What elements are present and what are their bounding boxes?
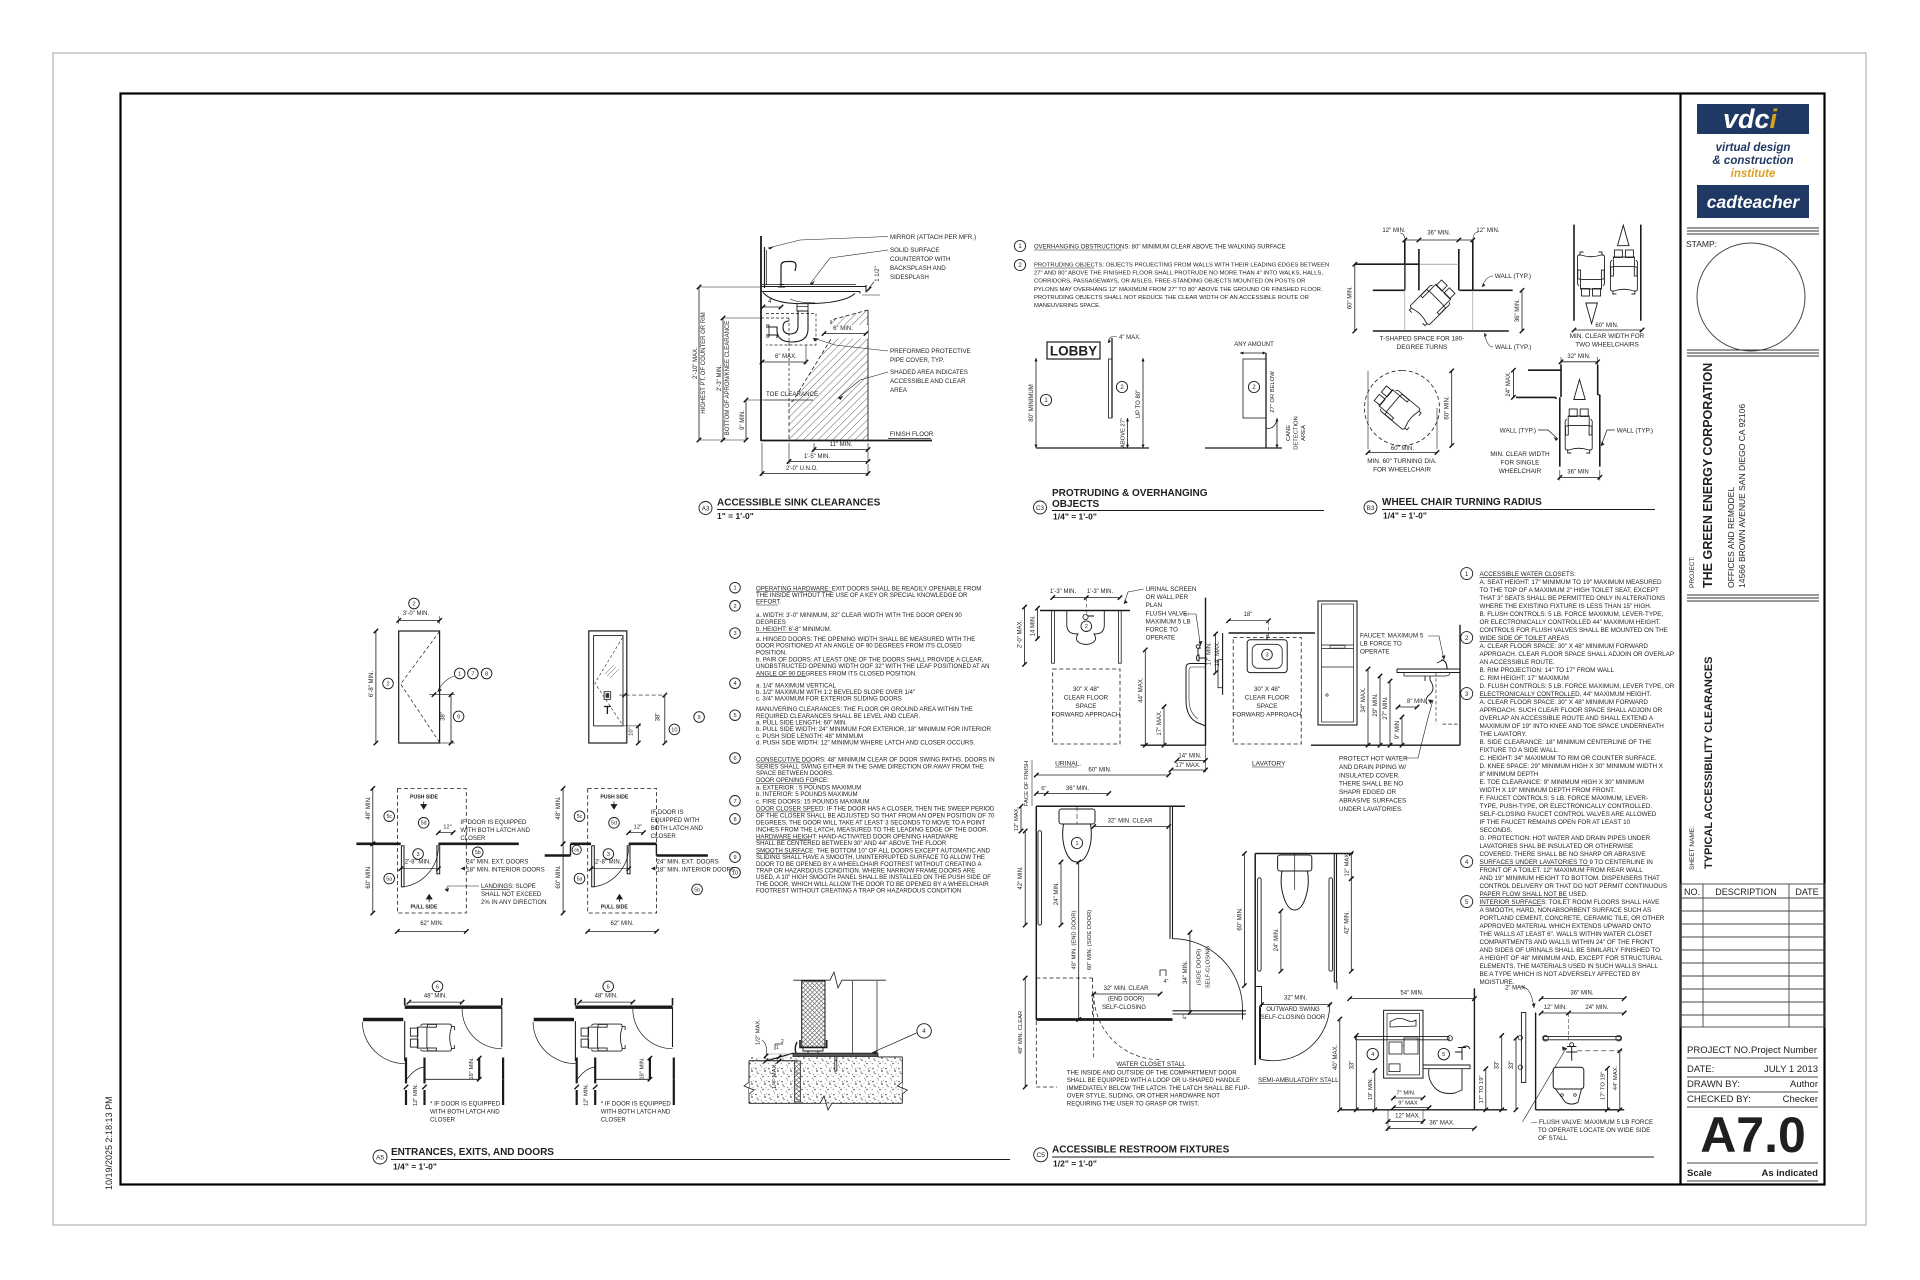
svg-text:INSULATED COVER.: INSULATED COVER.: [1339, 772, 1400, 779]
down arrow: [1586, 303, 1598, 324]
svg-text:OPERATE: OPERATE: [1146, 635, 1176, 642]
svg-text:33": 33": [1349, 1061, 1355, 1070]
maneuvering space dashed: [397, 788, 466, 913]
toilet: [1278, 855, 1312, 871]
svg-text:2: 2: [1085, 624, 1088, 630]
svg-text:SIDESPLASH: SIDESPLASH: [890, 274, 929, 281]
left lower wall: [1373, 289, 1405, 291]
svg-text:AND 19" MINIMUM HEIGHT TO BOTT: AND 19" MINIMUM HEIGHT TO BOTTOM. DISPEN…: [1480, 875, 1660, 882]
svg-text:5: 5: [733, 713, 736, 719]
svg-text:SHADED AREA INDICATES: SHADED AREA INDICATES: [890, 369, 968, 376]
24 max dim: [1512, 370, 1514, 397]
60 min dim left: [1354, 264, 1356, 331]
stamp circle: [1697, 243, 1805, 351]
svg-text:TO OPERATE LOCATE ON WIDE SIDE: TO OPERATE LOCATE ON WIDE SIDE: [1538, 1127, 1650, 1134]
svg-text:5b: 5b: [694, 887, 700, 893]
svg-text:THE INSIDE AND OUTSIDE OF THE: THE INSIDE AND OUTSIDE OF THE COMPARTMEN…: [1067, 1070, 1237, 1077]
dim 2-8 min: [603, 849, 614, 860]
svg-text:24" MIN.: 24" MIN.: [1585, 1005, 1608, 1011]
svg-text:URINAL.: URINAL.: [1055, 761, 1081, 768]
svg-text:ABOVE 27": ABOVE 27": [1121, 418, 1127, 448]
svg-text:B. FLUSH CONTROLS: 5 LB. FORCE: B. FLUSH CONTROLS: 5 LB. FORCE MAXIMUM, …: [1480, 611, 1664, 618]
small arc: [578, 1067, 596, 1079]
svg-text:PUSH SIDE: PUSH SIDE: [410, 794, 439, 800]
grab bar: [1543, 1037, 1621, 1040]
svg-text:14 MIN.: 14 MIN.: [1031, 615, 1037, 636]
svg-text:THE INSIDE WITHOUT THE USE OF: THE INSIDE WITHOUT THE USE OF A KEY OR S…: [756, 592, 968, 599]
mirror: [764, 247, 766, 288]
knee clearance dashed: [761, 317, 789, 319]
toilet side elevation: [1333, 988, 1507, 1131]
svg-text:7" MIN.: 7" MIN.: [1396, 1090, 1416, 1096]
svg-text:12" MIN.: 12" MIN.: [1476, 228, 1499, 234]
svg-text:PULL SIDE: PULL SIDE: [411, 904, 439, 910]
svg-text:WIDTH X 19" MINIMUM DEPTH FROM: WIDTH X 19" MINIMUM DEPTH FROM FRONT.: [1480, 787, 1616, 794]
flush valve note: [1523, 1048, 1567, 1122]
svg-text:1: 1: [733, 586, 736, 592]
svg-text:SPACE: SPACE: [1257, 703, 1278, 710]
note circle 8: [730, 814, 741, 825]
svg-text:(SIDE DOOR): (SIDE DOOR): [1197, 949, 1203, 985]
svg-text:STAMP:: STAMP:: [1686, 239, 1717, 249]
toilet profile: [1423, 1065, 1470, 1069]
svg-text:REQUIRING THE USER TO GRASP OR: REQUIRING THE USER TO GRASP OR TWIST.: [1067, 1100, 1199, 1107]
60 min vertical dim: [1451, 371, 1453, 446]
svg-text:SOLID SURFACE: SOLID SURFACE: [890, 247, 940, 254]
svg-text:FRONT OF A TOILET. 12" MAXIMUM: FRONT OF A TOILET. 12" MAXIMUM FROM REAR…: [1480, 867, 1644, 874]
svg-text:DATE:: DATE:: [1687, 1064, 1714, 1075]
svg-text:ACCESSIBLE WATER CLOSETS:: ACCESSIBLE WATER CLOSETS:: [1480, 571, 1576, 578]
lavatory plan: [1207, 612, 1316, 768]
svg-text:OUTWARD SWING: OUTWARD SWING: [1266, 1006, 1320, 1013]
svg-text:7: 7: [733, 799, 736, 805]
svg-text:As indicated: As indicated: [1762, 1168, 1819, 1179]
svg-text:80" MINIMUM: 80" MINIMUM: [1029, 384, 1035, 421]
svg-text:TYPICAL ACCESSIBILITY CLEARANC: TYPICAL ACCESSIBILITY CLEARANCES: [1703, 657, 1715, 870]
svg-text:FORWARD APPROACH: FORWARD APPROACH: [1052, 712, 1121, 719]
floor line left: [749, 1060, 795, 1062]
svg-text:48" MIN. (END DOOR): 48" MIN. (END DOOR): [1072, 910, 1078, 969]
svg-text:C. RIM HEIGHT: 17" MAXIMUM: C. RIM HEIGHT: 17" MAXIMUM: [1480, 675, 1569, 682]
title A3: [699, 502, 712, 515]
svg-text:— FLUSH VALVE: MAXIMUM 5 LB FO: — FLUSH VALVE: MAXIMUM 5 LB FORCE: [1531, 1119, 1653, 1126]
thin verticals: [1404, 264, 1406, 331]
svg-text:B3: B3: [1367, 505, 1375, 512]
door arc: [1173, 939, 1243, 1009]
svg-text:IF DOOR IS: IF DOOR IS: [651, 809, 684, 816]
semi-ambulatory stall plan: [1237, 851, 1353, 1084]
dim 38 right: [664, 695, 666, 743]
svg-text:COUNTERTOP WITH: COUNTERTOP WITH: [890, 256, 951, 263]
wall: [1229, 632, 1316, 634]
svg-text:27" MIN.: 27" MIN.: [1383, 696, 1389, 719]
left dims: [1020, 806, 1022, 831]
svg-text:FOR SINGLE: FOR SINGLE: [1501, 460, 1540, 467]
small dims: [1374, 1071, 1376, 1110]
dim 9 min: [745, 400, 747, 440]
note 1: [1014, 240, 1025, 251]
svg-text:DOOR OPENING FORCE:: DOOR OPENING FORCE:: [756, 777, 829, 784]
svg-text:38": 38": [656, 713, 662, 722]
svg-text:INTERIOR SURFACES: TOILET ROOM: INTERIOR SURFACES: TOILET ROOM FLOORS SH…: [1480, 899, 1660, 906]
svg-text:60" MIN.: 60" MIN.: [1348, 286, 1354, 309]
C5 numbered notes column: [1461, 568, 1675, 986]
svg-text:PROTRUDING OBJECTS SHALL NOT R: PROTRUDING OBJECTS SHALL NOT REDUCE THE …: [1034, 295, 1309, 301]
door elevation 1: [399, 631, 440, 743]
lower-left wall: [363, 1018, 403, 1021]
svg-text:8b: 8b: [574, 847, 579, 852]
svg-text:CLEAR FLOOR: CLEAR FLOOR: [1245, 695, 1290, 702]
svg-text:4": 4": [768, 299, 773, 305]
svg-text:5b: 5b: [475, 850, 481, 856]
svg-text:LAVATORIES SHAL BE INSULATED O: LAVATORIES SHAL BE INSULATED OR OTHERWIS…: [1480, 843, 1634, 850]
svg-text:URINAL SCREEN: URINAL SCREEN: [1146, 586, 1197, 593]
svg-text:COMPARTMENTS AND WALLS WITHIN: COMPARTMENTS AND WALLS WITHIN 24" OF THE…: [1480, 939, 1654, 946]
svg-text:3'-0" MIN.: 3'-0" MIN.: [403, 611, 430, 617]
urinal side elevation: [1124, 586, 1208, 772]
svg-text:5a: 5a: [386, 876, 392, 882]
svg-text:30" X 48": 30" X 48": [1254, 686, 1280, 693]
svg-text:b. HEIGHT: 6'-8" MINIMUM.: b. HEIGHT: 6'-8" MINIMUM.: [756, 626, 832, 633]
svg-text:5d: 5d: [421, 821, 427, 827]
up arrow: [1574, 379, 1585, 399]
svg-text:12" MIN.: 12" MIN.: [584, 1083, 590, 1106]
turning circle diagram: [1365, 371, 1440, 446]
svg-text:Project Number: Project Number: [1751, 1045, 1817, 1056]
svg-text:SELF-CLOSING DOOR: SELF-CLOSING DOOR: [1261, 1014, 1326, 1021]
svg-text:32" MIN. CLEAR: 32" MIN. CLEAR: [1104, 986, 1149, 992]
svg-text:OBJECTS: OBJECTS: [1052, 499, 1100, 510]
svg-text:1: 1: [776, 1045, 779, 1051]
side wall + dispenser: [1222, 633, 1224, 695]
svg-text:2'-3" MIN.: 2'-3" MIN.: [717, 365, 723, 392]
svg-text:CLOSER: CLOSER: [601, 1117, 627, 1124]
svg-text:MIN. CLEAR WIDTH: MIN. CLEAR WIDTH: [1490, 451, 1550, 458]
svg-text:2'-10" MAX.: 2'-10" MAX.: [693, 347, 699, 379]
svg-text:CLOSER: CLOSER: [651, 833, 677, 840]
svg-text:6: 6: [607, 984, 610, 990]
door swing plan left: [356, 786, 544, 933]
svg-text:THE GREEN ENERGY CORPORATION: THE GREEN ENERGY CORPORATION: [1701, 363, 1715, 588]
svg-text:3: 3: [417, 852, 420, 858]
svg-text:PULL SIDE: PULL SIDE: [601, 904, 629, 910]
vestibule plan left: [362, 981, 503, 1124]
svg-text:3: 3: [733, 631, 736, 637]
svg-text:ANGLE OF 90 DEGREES FROM ITS C: ANGLE OF 90 DEGREES FROM ITS CLOSED POSI…: [756, 670, 917, 677]
side door dims: [1189, 933, 1191, 1013]
svg-text:12" MIN.: 12" MIN.: [413, 1083, 419, 1106]
svg-text:PLAN: PLAN: [1146, 602, 1163, 609]
svg-text:BACKSPLASH AND: BACKSPLASH AND: [890, 265, 946, 272]
dashed door swing (end door): [1094, 994, 1160, 1060]
svg-text:12" MAX.: 12" MAX.: [1014, 806, 1020, 831]
svg-text:9" MAX: 9" MAX: [1398, 1101, 1418, 1107]
dim 3-0 min: [409, 598, 420, 609]
svg-text:10": 10": [629, 727, 635, 736]
svg-text:33": 33": [1495, 1061, 1501, 1070]
divider lines: [1687, 350, 1819, 356]
svg-text:THAT 3" SEATS SHALL BE PERMITT: THAT 3" SEATS SHALL BE PERMITTED ONLY IN…: [1480, 595, 1666, 602]
svg-text:UP TO 80": UP TO 80": [1136, 390, 1142, 418]
svg-text:DRAWN BY:: DRAWN BY:: [1687, 1079, 1740, 1090]
svg-text:B. RIM PROJECTION: 14" TO 17": B. RIM PROJECTION: 14" TO 17" FROM WALL: [1480, 667, 1615, 674]
svg-text:5c: 5c: [386, 814, 392, 820]
svg-text:APPROACH. CLEAR FLOOR SPACE SH: APPROACH. CLEAR FLOOR SPACE SHALL ADJOIN…: [1480, 651, 1675, 658]
svg-text:44" MAX.: 44" MAX.: [1138, 677, 1144, 702]
svg-text:4: 4: [922, 1028, 926, 1035]
svg-text:ACCESSIBLE RESTROOM FIXTURES: ACCESSIBLE RESTROOM FIXTURES: [1052, 1145, 1230, 1156]
svg-text:FLUSH VALVE:: FLUSH VALVE:: [1146, 611, 1190, 618]
svg-text:24" MIN.: 24" MIN.: [1274, 928, 1280, 951]
svg-text:17" TO 19": 17" TO 19": [1600, 1072, 1606, 1100]
project data: [1687, 1045, 1818, 1107]
svg-text:14" MIN.: 14" MIN.: [1178, 753, 1201, 759]
title B3: [1364, 501, 1377, 514]
note circle 10: [730, 867, 741, 878]
svg-text:T-SHAPED SPACE FOR 180-: T-SHAPED SPACE FOR 180-: [1380, 336, 1465, 343]
svg-text:MIRROR (ATTACH PER MFR.): MIRROR (ATTACH PER MFR.): [890, 234, 976, 241]
svg-text:SURFACES UNDER LAVATORIES TO 9: SURFACES UNDER LAVATORIES TO 9 TO CENTER…: [1480, 859, 1654, 866]
svg-text:TO THE TOP OF A MAXIMUM 2" HIG: TO THE TOP OF A MAXIMUM 2" HIGH TOILET S…: [1480, 587, 1659, 594]
clear floor dashed: [1053, 669, 1120, 744]
svg-text:SELF-CLOSING: SELF-CLOSING: [1206, 945, 1212, 988]
svg-text:OF THE CLOSER SHALL BE ADJUSTE: OF THE CLOSER SHALL BE ADJUSTED SO THAT …: [756, 812, 995, 819]
svg-text:MANEUVERING SPACE.: MANEUVERING SPACE.: [1034, 303, 1101, 309]
grab bars: [1258, 878, 1262, 971]
svg-text:SELF-CLOSING: SELF-CLOSING: [1102, 1005, 1146, 1011]
svg-text:SEMI-AMBULATORY STALL: SEMI-AMBULATORY STALL: [1258, 1077, 1339, 1084]
svg-text:A. CLEAR FLOOR SPACE: 30" X 48: A. CLEAR FLOOR SPACE: 30" X 48" MINIMUM …: [1480, 643, 1649, 650]
svg-text:6'-8" MIN.: 6'-8" MIN.: [369, 671, 375, 698]
dim 38: [450, 695, 452, 743]
svg-text:IMMEDIATELY BELOW THE LATCH. T: IMMEDIATELY BELOW THE LATCH. THE LATCH S…: [1067, 1085, 1250, 1092]
svg-text:17" TO 19": 17" TO 19": [1479, 1075, 1485, 1103]
svg-text:AREA: AREA: [1301, 425, 1307, 441]
two wheelchair diagram: [1573, 225, 1575, 321]
extension line: [767, 1053, 790, 1055]
svg-text:SHAPR EDGED OR: SHAPR EDGED OR: [1339, 789, 1396, 796]
note circle 6: [730, 753, 741, 764]
svg-text:EFFORT.: EFFORT.: [756, 599, 782, 606]
water closet stall plan: [1014, 760, 1250, 1107]
dispenser and lavatory elevation: [1311, 601, 1460, 813]
wall left: [1535, 1013, 1537, 1110]
lower corridor jambs: [576, 1058, 578, 1084]
svg-text:12" MAX.: 12" MAX.: [1395, 1114, 1420, 1120]
wheelchair: [1565, 409, 1592, 453]
sheet border frame: [121, 94, 1825, 1185]
door 1 leaf+arc: [404, 1021, 406, 1061]
left wall: [1035, 806, 1037, 1020]
door leaf: [592, 846, 595, 887]
svg-text:Checker: Checker: [1783, 1094, 1818, 1105]
break line top: [793, 972, 886, 988]
svg-text:24" MAX.: 24" MAX.: [1506, 371, 1512, 396]
svg-text:42" MIN.: 42" MIN.: [1018, 866, 1024, 889]
dims: [1144, 650, 1146, 745]
svg-text:OPERATE: OPERATE: [1360, 649, 1390, 656]
svg-text:AND DRAIN PIPING W/: AND DRAIN PIPING W/: [1339, 764, 1406, 771]
hardware line dashed: [619, 694, 665, 696]
note circle 7: [730, 796, 741, 807]
svg-text:SPACE BETWEEN DOORS.: SPACE BETWEEN DOORS.: [756, 770, 834, 777]
svg-text:2'-8" MIN.: 2'-8" MIN.: [405, 860, 432, 866]
svg-text:33": 33": [1509, 1061, 1515, 1070]
svg-text:CONTROL DELIVERY OR THAT DO NO: CONTROL DELIVERY OR THAT DO NOT PERMIT C…: [1480, 883, 1668, 890]
svg-text:D. KNEE SPACE: 29" MINIMUM HIG: D. KNEE SPACE: 29" MINIMUM HIGH X 30" MI…: [1480, 763, 1664, 770]
svg-text:14566 BROWN AVENUE SAN DIEGO C: 14566 BROWN AVENUE SAN DIEGO CA 92106: [1737, 404, 1747, 588]
svg-text:36" MAX.: 36" MAX.: [1429, 1121, 1454, 1127]
paper towel dispenser: [1318, 601, 1357, 725]
left dims: [1024, 607, 1026, 664]
svg-text:54" MIN.: 54" MIN.: [1400, 991, 1423, 997]
svg-text:OVER STYLE, SLIDING, OR OTHER: OVER STYLE, SLIDING, OR OTHER HARDWARE N…: [1067, 1093, 1220, 1100]
flush valve: [1563, 1047, 1577, 1061]
corridor line: [425, 1078, 478, 1080]
divider lines: [1687, 228, 1819, 234]
svg-text:1/4" = 1'-0": 1/4" = 1'-0": [1383, 511, 1427, 521]
upper wall: [575, 1006, 672, 1009]
svg-text:BOTH LATCH AND: BOTH LATCH AND: [651, 825, 704, 832]
48/60 rotated dims: [1078, 862, 1080, 1020]
svg-text:WITH BOTH LATCH AND: WITH BOTH LATCH AND: [460, 827, 530, 834]
small arc: [407, 1067, 425, 1079]
break marks: [744, 1082, 907, 1094]
svg-text:1/4" = 1'-0": 1/4" = 1'-0": [393, 1162, 437, 1172]
svg-text:ELECTRONICALLY CONTROLLED, 44": ELECTRONICALLY CONTROLLED, 44" MAXIMUM H…: [1480, 691, 1652, 698]
svg-text:12" MAX: 12" MAX: [1344, 854, 1350, 877]
dashed 44 line: [1577, 1050, 1624, 1052]
svg-text:6: 6: [733, 756, 736, 762]
svg-text:TYPE, PUSH-TYPE, OR ELECTRONIC: TYPE, PUSH-TYPE, OR ELECTRONICALLY CONTR…: [1480, 803, 1653, 810]
pull side: [426, 895, 432, 903]
svg-text:INCHES FROM THE LATCH, MEASURE: INCHES FROM THE LATCH, MEASURED TO THE L…: [756, 826, 989, 833]
svg-text:38": 38": [440, 712, 446, 721]
svg-text:ABRASIVE SURFACES: ABRASIVE SURFACES: [1339, 798, 1406, 805]
LOBBY sign: [1047, 342, 1100, 359]
svg-text:a. WIDTH: 3'-0" MINIMUM, 32" C: a. WIDTH: 3'-0" MINIMUM, 32" CLEAR WIDTH…: [756, 612, 962, 619]
cistern/bowl: [1553, 1067, 1584, 1089]
door swing plan right: [545, 786, 735, 933]
svg-text:CLOSER: CLOSER: [430, 1117, 456, 1124]
wheelchair rotated: [1408, 277, 1458, 327]
svg-text:LAVATORY: LAVATORY: [1252, 761, 1286, 768]
svg-text:A. SEAT HEIGHT: 17" MINIMUM TO: A. SEAT HEIGHT: 17" MINIMUM TO 19" MAXIM…: [1480, 579, 1663, 586]
svg-text:Author: Author: [1790, 1079, 1818, 1090]
circle 6 + 48 min dim: [432, 981, 443, 992]
svg-text:30" X 48": 30" X 48": [1073, 686, 1099, 693]
svg-text:12": 12": [443, 825, 452, 831]
svg-text:60" MIN. (SIDE DOOR): 60" MIN. (SIDE DOOR): [1087, 910, 1093, 970]
floor: [1536, 1109, 1625, 1111]
svg-text:APPROACH. SUCH CLEAR FLOOR SPA: APPROACH. SUCH CLEAR FLOOR SPACE SHALL A…: [1480, 707, 1663, 714]
svg-text:6: 6: [436, 984, 439, 990]
svg-text:PYLONS MAY OVERHANG 12" MAXIMU: PYLONS MAY OVERHANG 12" MAXIMUM FROM 27"…: [1034, 287, 1323, 293]
svg-text:29" MIN.: 29" MIN.: [1373, 693, 1379, 716]
svg-text:PROJECT NO.:: PROJECT NO.:: [1687, 1045, 1753, 1056]
T-shape walls: [1404, 240, 1406, 290]
swing arc: [594, 847, 628, 887]
shaded accessible area: [789, 310, 868, 440]
svg-text:2: 2: [386, 682, 389, 688]
screens: [1052, 611, 1055, 664]
detail C3: protruding and overhanging objects: [1014, 240, 1329, 521]
dashed clear floor: [1036, 977, 1092, 979]
svg-text:44" MAX.: 44" MAX.: [1613, 1066, 1619, 1091]
above 27 dim: [1127, 418, 1129, 448]
svg-text:* IF DOOR IS EQUIPPED: * IF DOOR IS EQUIPPED: [430, 1100, 501, 1107]
svg-text:3: 3: [1265, 653, 1268, 659]
svg-text:WATER CLOSET STALL: WATER CLOSET STALL: [1116, 1061, 1186, 1068]
svg-text:27" OR BELOW: 27" OR BELOW: [1270, 371, 1276, 413]
bottom wall: [1373, 330, 1509, 332]
svg-text:60" MIN.: 60" MIN.: [556, 865, 562, 888]
svg-text:ACCESSIBLE SINK CLEARANCES: ACCESSIBLE SINK CLEARANCES: [717, 498, 881, 509]
svg-text:1 1/2": 1 1/2": [875, 266, 881, 281]
svg-text:1'-3" MIN.: 1'-3" MIN.: [1087, 589, 1114, 595]
svg-text:AND SIDES OF URINALS SHALL BE: AND SIDES OF URINALS SHALL BE SIMILARLY …: [1480, 947, 1661, 954]
wall: [1265, 353, 1267, 448]
dispenser: [1384, 1010, 1423, 1078]
svg-text:36" MIN.: 36" MIN.: [1427, 231, 1450, 237]
svg-text:PROTRUDING & OVERHANGING: PROTRUDING & OVERHANGING: [1052, 488, 1208, 499]
svg-text:3: 3: [607, 852, 610, 858]
svg-text:5d: 5d: [611, 821, 617, 827]
note circle 2: [1461, 632, 1473, 644]
svg-text:19" MAX.: 19" MAX.: [1215, 641, 1221, 666]
note circle 1: [730, 582, 741, 593]
note circle 5: [1461, 896, 1473, 908]
dim 2-10 max left: [698, 287, 700, 440]
A5 numbered notes column: [730, 582, 995, 894]
vdci logo: [1697, 104, 1809, 134]
note circle 1: [1461, 568, 1473, 580]
svg-text:THERE SHALL BE NO: THERE SHALL BE NO: [1339, 781, 1403, 788]
svg-text:DETECTION: DETECTION: [1294, 416, 1300, 450]
walls: [1528, 369, 1561, 371]
svg-text:c. FIRE DOORS: 15 POUNDS MAXIM: c. FIRE DOORS: 15 POUNDS MAXIMUM: [756, 798, 869, 805]
svg-text:FAUCET: MAXIMUM 5: FAUCET: MAXIMUM 5: [1360, 633, 1424, 640]
lever handle: [604, 707, 611, 715]
note circle 2: [730, 601, 741, 612]
expansion joint: [795, 1061, 801, 1102]
svg-text:SHALL BE EQUIPPED WITH A LOOP: SHALL BE EQUIPPED WITH A LOOP OR U-SHAPE…: [1067, 1077, 1240, 1084]
svg-text:NO.: NO.: [1684, 887, 1700, 897]
svg-text:cadteacher: cadteacher: [1707, 192, 1801, 212]
svg-text:32" MIN. CLEAR: 32" MIN. CLEAR: [1108, 819, 1153, 825]
svg-text:4": 4": [1164, 979, 1169, 985]
svg-text:17" MIN.: 17" MIN.: [1207, 642, 1213, 665]
svg-text:ACCESSIBLE AND CLEAR: ACCESSIBLE AND CLEAR: [890, 378, 966, 385]
svg-text:40" MAX.: 40" MAX.: [1333, 1044, 1339, 1069]
svg-text:DEGREES: DEGREES: [756, 619, 786, 626]
svg-text:27" AND 80" ABOVE THE FINISHED: 27" AND 80" ABOVE THE FINISHED FLOOR SHA…: [1034, 271, 1323, 277]
svg-text:CONTROLS FOR FLUSH VALVES SHAL: CONTROLS FOR FLUSH VALVES SHALL BE MOUNT…: [1480, 627, 1668, 634]
frame lines right: [851, 981, 853, 1053]
floor line: [1036, 447, 1149, 449]
door leaf: [1259, 1007, 1261, 1059]
svg-text:10/19/2025 2:18:13 PM: 10/19/2025 2:18:13 PM: [104, 1096, 114, 1190]
svg-text:Scale: Scale: [1687, 1168, 1712, 1179]
door arc: [1261, 1003, 1330, 1061]
left wall: [1254, 854, 1256, 1066]
svg-text:OF STALL: OF STALL: [1538, 1135, 1568, 1142]
svg-text:IF THE FAUCET REMAINS OPEN FOR: IF THE FAUCET REMAINS OPEN FOR AT LEAST …: [1480, 819, 1631, 826]
svg-text:virtual design: virtual design: [1716, 142, 1791, 154]
divider lines: [1687, 595, 1819, 601]
svg-text:60" MIN.: 60" MIN.: [1595, 323, 1618, 329]
svg-text:institute: institute: [1731, 168, 1776, 180]
